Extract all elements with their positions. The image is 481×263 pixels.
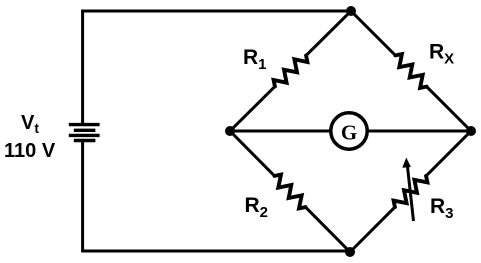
wire RX upper lead bbox=[351, 11, 395, 55]
node left bbox=[225, 126, 235, 136]
battery Vt bbox=[69, 125, 100, 141]
wire R1 upper lead bbox=[306, 11, 351, 56]
resistor R2 bbox=[275, 175, 306, 209]
node top bbox=[346, 6, 356, 16]
wire R3 lower lead bbox=[350, 207, 395, 252]
wire R2 upper lead bbox=[230, 131, 275, 176]
svg-text:110 V: 110 V bbox=[4, 140, 56, 162]
resistor RX bbox=[395, 54, 426, 88]
wire bottom horizontal bbox=[83, 142, 350, 252]
wire R3 upper lead bbox=[426, 131, 471, 176]
wire top horizontal bbox=[83, 11, 351, 124]
svg-text:G: G bbox=[341, 120, 357, 144]
arrow of variable resistor R3 bbox=[402, 158, 413, 222]
wire left-node to galvanometer bbox=[230, 130, 330, 133]
wire RX lower lead bbox=[427, 87, 471, 131]
wire R2 lower lead bbox=[306, 207, 351, 252]
resistor R3 bbox=[394, 176, 428, 207]
galvanometer G bbox=[331, 113, 367, 149]
wire galvanometer to right-node bbox=[368, 130, 471, 133]
resistor R1 bbox=[274, 56, 308, 87]
wire R1 lower lead bbox=[230, 87, 275, 132]
node bottom bbox=[345, 247, 355, 257]
node right bbox=[466, 126, 476, 136]
